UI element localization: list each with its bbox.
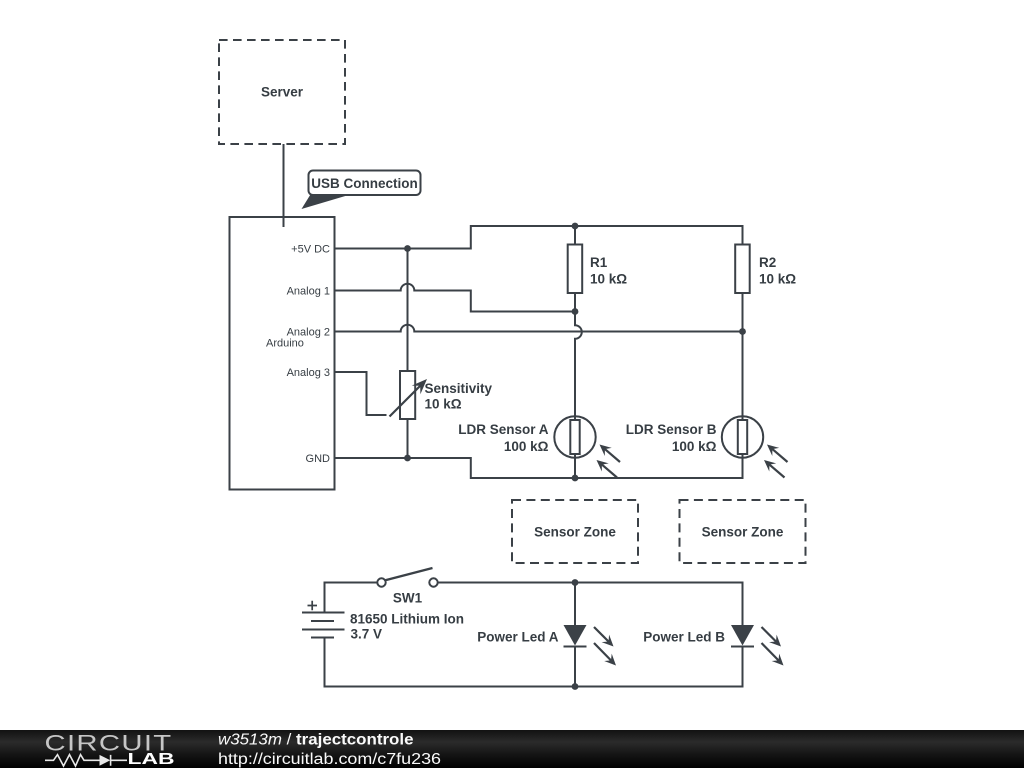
svg-text:LDR Sensor B: LDR Sensor B [626, 422, 717, 437]
svg-text:100 kΩ: 100 kΩ [672, 439, 717, 454]
svg-text:R1: R1 [590, 255, 608, 270]
svg-text:w3513m / trajectcontrole: w3513m / trajectcontrole [218, 731, 414, 748]
svg-text:100 kΩ: 100 kΩ [504, 439, 549, 454]
svg-text:GND: GND [306, 453, 331, 465]
svg-text:R2: R2 [759, 255, 776, 270]
svg-text:10 kΩ: 10 kΩ [759, 272, 796, 287]
svg-text:+5V DC: +5V DC [291, 244, 330, 256]
svg-text:Sensitivity: Sensitivity [425, 381, 493, 396]
svg-text:Arduino: Arduino [266, 338, 304, 350]
svg-text:Analog 3: Analog 3 [287, 367, 330, 379]
svg-text:LAB: LAB [128, 751, 175, 768]
svg-text:Sensor Zone: Sensor Zone [534, 525, 616, 540]
svg-text:USB Connection: USB Connection [311, 176, 418, 191]
svg-text:LDR Sensor A: LDR Sensor A [458, 422, 549, 437]
svg-text:Analog 1: Analog 1 [287, 286, 330, 298]
svg-text:81650 Lithium Ion: 81650 Lithium Ion [350, 612, 464, 627]
svg-text:Sensor Zone: Sensor Zone [702, 525, 784, 540]
svg-text:Server: Server [261, 85, 304, 100]
svg-text:Power Led A: Power Led A [477, 630, 559, 645]
svg-text:http://circuitlab.com/c7fu236: http://circuitlab.com/c7fu236 [218, 751, 441, 768]
svg-text:10 kΩ: 10 kΩ [425, 397, 462, 412]
svg-text:Power Led B: Power Led B [643, 630, 725, 645]
svg-text:10 kΩ: 10 kΩ [590, 272, 627, 287]
svg-text:SW1: SW1 [393, 591, 423, 606]
svg-text:3.7 V: 3.7 V [351, 627, 383, 642]
